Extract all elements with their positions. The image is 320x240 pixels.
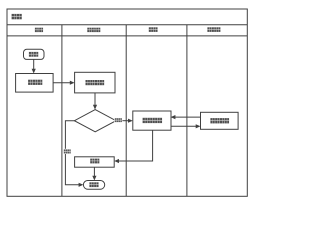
node text 清除台面 bbox=[210, 118, 229, 123]
lane header text 服务员 bbox=[87, 28, 100, 32]
wire confirm-order->decision bbox=[94, 93, 96, 106]
edge label 失败 (failure) bbox=[64, 149, 71, 153]
arrowhead confirm-order->decision bbox=[93, 105, 97, 110]
node text 结束 bbox=[89, 182, 98, 187]
process 下订单 (place order) bbox=[16, 74, 54, 93]
pool title separator line bbox=[7, 24, 247, 26]
arrowhead serve->end bbox=[92, 176, 96, 181]
arrowhead start->place-order bbox=[32, 69, 36, 74]
wire clean->cook (upper) bbox=[175, 116, 201, 118]
process 确认订单 (confirm order) bbox=[75, 72, 115, 93]
wire cook->serve (down then left) bbox=[119, 130, 153, 161]
arrowhead clean->cook bbox=[171, 115, 176, 119]
arrowhead cook->clean bbox=[196, 124, 201, 128]
arrowhead cook->serve bbox=[114, 159, 119, 163]
label background 失败 bbox=[63, 149, 71, 154]
lane header bottom line bbox=[7, 35, 247, 37]
pool frame bbox=[7, 9, 247, 196]
wire place-order->confirm-order bbox=[53, 82, 70, 84]
decision diamond bbox=[74, 110, 116, 132]
edge label 成功 (success) bbox=[115, 118, 122, 122]
process 清除台面 (clear table) bbox=[201, 112, 239, 129]
start node 开始 bbox=[24, 49, 45, 59]
arrowhead decision->cook bbox=[128, 119, 133, 123]
lane divider 2 (waiter/chef) bbox=[125, 25, 127, 197]
process 上菜 (serve dish) bbox=[75, 157, 115, 167]
arrowhead place-order->confirm-order bbox=[70, 81, 75, 85]
label background 成功 bbox=[114, 118, 122, 123]
arrowhead decision->end failure bbox=[79, 183, 84, 187]
lane header text 勤杂工 bbox=[207, 27, 220, 32]
lane divider 1 (customer/waiter) bbox=[61, 25, 63, 197]
pool title text 点餐 bbox=[12, 14, 22, 19]
process 加工菜品 (cook food) bbox=[133, 111, 171, 130]
wire decision->end (failure path) bbox=[65, 121, 79, 185]
node text 确认订单 bbox=[86, 80, 105, 85]
end node 结束 bbox=[83, 181, 104, 190]
wire serve->end bbox=[93, 167, 95, 176]
node text 上菜 bbox=[90, 159, 99, 164]
wire start->place-order bbox=[33, 59, 35, 69]
node text 下订单 bbox=[28, 80, 42, 85]
node text 开始 bbox=[29, 52, 38, 57]
lane divider 3 (chef/busboy) bbox=[186, 25, 188, 197]
lane header text 客户 bbox=[35, 28, 43, 32]
wire decision->cook (success) bbox=[116, 120, 129, 122]
wire cook->clean (lower) bbox=[171, 125, 197, 127]
node text 加工菜品 bbox=[143, 118, 162, 123]
lane header text 厨师 bbox=[149, 27, 158, 32]
